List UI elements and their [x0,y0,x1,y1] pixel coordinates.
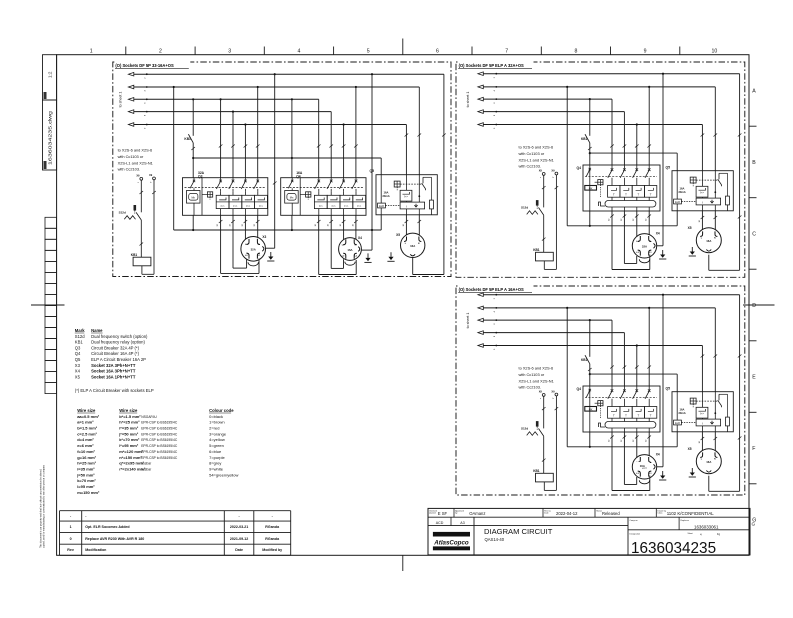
svg-text:I>>: I>> [344,204,348,208]
svg-text:2: 2 [159,48,162,54]
svg-text:QAS14-40: QAS14-40 [485,537,505,542]
svg-text:j=50 mm²: j=50 mm² [76,472,95,477]
svg-text:I>>: I>> [221,204,225,208]
svg-text:Released: Released [602,511,620,516]
svg-text:k*=70 mm²: k*=70 mm² [119,437,140,442]
svg-text:X4: X4 [358,236,362,240]
svg-text:16A: 16A [680,186,685,190]
svg-text:Mn: Mn [191,196,195,200]
svg-text:copied, used for manufacturing: copied, used for manufacturing or commun… [43,464,46,548]
svg-text:busbar: busbar [141,462,152,466]
svg-text:F: F [752,446,755,452]
svg-text:l=95 mm²: l=95 mm² [77,484,95,489]
svg-text:c=2.5 mm²: c=2.5 mm² [77,431,97,436]
svg-text:I>>: I>> [700,191,704,195]
svg-text:aa=0.5 mm²: aa=0.5 mm² [77,414,100,419]
svg-text:32A: 32A [642,245,647,249]
svg-text:(O) Sockets DF 5P ELP A 32A+OS: (O) Sockets DF 5P ELP A 32A+OS [459,63,524,68]
svg-text:9=white: 9=white [209,466,224,471]
svg-text:Q3: Q3 [198,174,203,178]
svg-text:X9: X9 [136,174,140,178]
svg-text:32A: 32A [251,248,256,252]
svg-text:8: 8 [574,48,577,54]
svg-text:1636034235.dwg: 1636034235.dwg [48,110,53,165]
svg-text:h*=25 mm²: h*=25 mm² [119,420,140,425]
svg-text:D: D [752,303,756,309]
svg-text:EPR-CSP to BS6195/4C: EPR-CSP to BS6195/4C [141,438,178,442]
svg-text:a=1 mm²: a=1 mm² [77,420,94,425]
svg-text:S12d: S12d [521,206,528,210]
svg-text:EPR-CSP to BS6195/4C: EPR-CSP to BS6195/4C [141,421,178,425]
svg-text:Circuit Breaker 32A 4P (*): Circuit Breaker 32A 4P (*) [91,345,139,350]
svg-text:2=red: 2=red [209,426,219,431]
svg-text:j*=50 mm²: j*=50 mm² [118,431,139,436]
svg-text:Dual frequency relay (option): Dual frequency relay (option) [91,340,145,345]
svg-text:l*=95 mm²: l*=95 mm² [119,443,139,448]
svg-text:G: G [752,522,756,527]
svg-text:Sheet: Sheet [688,532,694,535]
svg-text:16A: 16A [640,464,645,468]
svg-text:I>>: I>> [233,204,237,208]
svg-text:X9: X9 [539,169,543,173]
svg-text:to sheet 1: to sheet 1 [119,92,123,108]
svg-text:3: 3 [228,48,231,54]
svg-text:A: A [752,89,756,95]
svg-text:Q4: Q4 [296,174,301,178]
svg-text:Socket 16A 3Ph+N+TT: Socket 16A 3Ph+N+TT [91,369,136,374]
svg-text:X9: X9 [551,168,555,172]
svg-text:A3: A3 [460,521,464,525]
svg-text:e=6 mm²: e=6 mm² [77,443,94,448]
svg-text:2022-03-21: 2022-03-21 [230,525,248,529]
svg-text:T: T [638,193,640,197]
svg-text:busbar: busbar [141,467,152,471]
svg-text:RGanda: RGanda [265,537,280,541]
svg-text:T: T [625,193,627,197]
svg-text:16A: 16A [706,239,711,243]
svg-text:by: by [455,513,457,515]
svg-text:E: E [752,375,756,381]
svg-text:k=70 mm²: k=70 mm² [77,478,96,483]
svg-text:Name: Name [91,328,103,333]
svg-text:to sheet 1: to sheet 1 [466,92,470,108]
svg-text:Colour code: Colour code [209,408,234,413]
svg-text:6: 6 [436,48,439,54]
svg-text:b*=1.5 mm²: b*=1.5 mm² [119,414,141,419]
svg-text:with Cc2103.: with Cc2103. [519,164,542,169]
svg-text:X3: X3 [262,235,266,239]
svg-text:S12d: S12d [119,211,126,215]
svg-text:Mn: Mn [290,196,294,200]
svg-text:d=4 mm²: d=4 mm² [77,437,94,442]
svg-text:X2S-L1 and X2S-N1: X2S-L1 and X2S-N1 [519,157,554,162]
svg-text:KB1: KB1 [75,340,84,345]
svg-text:(O) Sockets DF 5P ELP A 16A+OS: (O) Sockets DF 5P ELP A 16A+OS [459,287,524,292]
svg-text:1: 1 [70,525,72,529]
svg-text:KB1: KB1 [581,137,588,141]
svg-text:ELP A Circuit Breaker 16A 2P: ELP A Circuit Breaker 16A 2P [91,357,146,362]
svg-text:4=yellow: 4=yellow [209,437,225,442]
svg-text:Q5: Q5 [665,166,670,170]
svg-text:i*=35 mm²: i*=35 mm² [119,426,139,431]
svg-text:30mA: 30mA [382,194,389,198]
svg-text:16A: 16A [410,244,415,248]
svg-text:h=25 mm²: h=25 mm² [77,461,96,466]
svg-text:T: T [650,193,652,197]
svg-text:0=black: 0=black [209,414,223,419]
svg-text:S12d: S12d [75,334,85,339]
svg-text:Replaces: Replaces [681,520,689,522]
svg-text:ELR: ELR [675,201,680,204]
svg-text:Socket 16A 1Ph+N+TT: Socket 16A 1Ph+N+TT [91,374,136,379]
svg-text:Replace AVR R230 With AVR R 18: Replace AVR R230 With AVR R 180 [85,537,144,541]
svg-text:Socket 32A 3Ph+N+TT: Socket 32A 3Ph+N+TT [91,363,136,368]
svg-text:7=purple: 7=purple [209,455,225,460]
svg-text:m=150 mm²: m=150 mm² [77,490,100,495]
svg-text:X5: X5 [688,226,692,230]
svg-text:(O) Sockets DF 5P 33-16A+OS: (O) Sockets DF 5P 33-16A+OS [115,63,174,68]
svg-text:EPR-CSP to BS6195/4C: EPR-CSP to BS6195/4C [141,432,178,436]
svg-text:ELR: ELR [379,205,384,208]
svg-text:ACD: ACD [436,521,444,525]
svg-text:Mark: Mark [75,328,85,333]
svg-text:MX: MX [589,187,593,190]
svg-text:Q3: Q3 [75,345,81,350]
svg-text:I>>: I>> [259,204,263,208]
svg-text:8=grey: 8=grey [209,461,221,466]
svg-text:NSGAFöU: NSGAFöU [141,415,157,419]
svg-text:EPR-CSP to BS6195/4C: EPR-CSP to BS6195/4C [141,444,178,448]
svg-text:I>>: I>> [404,195,408,199]
svg-text:Wire size: Wire size [77,408,96,413]
svg-text:B: B [752,160,756,166]
svg-text:f=10 mm²: f=10 mm² [77,449,95,454]
svg-text:Class: Class [657,513,662,515]
svg-text:Q5: Q5 [369,169,374,173]
svg-text:16A: 16A [347,248,352,252]
svg-text:(*) ELP A Circuit Breaker with: (*) ELP A Circuit Breaker with sockets E… [75,388,154,393]
svg-text:5: 5 [367,48,370,54]
svg-text:EPR-CSP to BS6195/4C: EPR-CSP to BS6195/4C [141,450,178,454]
svg-text:RGanda: RGanda [265,525,280,529]
svg-text:to X2S-6 and X2S-6: to X2S-6 and X2S-6 [118,148,153,153]
svg-text:Q4: Q4 [576,166,581,170]
svg-text:54=green/yellow: 54=green/yellow [209,472,238,477]
svg-text:2021-09-12: 2021-09-12 [230,537,248,541]
svg-text:1636033061: 1636033061 [694,525,719,530]
svg-text:Quoted: Quoted [429,512,436,515]
svg-text:2022-04-12: 2022-04-12 [556,511,578,516]
svg-text:C: C [752,232,756,238]
svg-text:m*=120 mm²: m*=120 mm² [119,449,143,454]
svg-text:X3: X3 [75,363,81,368]
svg-text:Q4: Q4 [75,351,81,356]
svg-text:i=35 mm²: i=35 mm² [77,466,95,471]
svg-text:1:2: 1:2 [47,71,52,78]
svg-text:6=blue: 6=blue [209,449,222,454]
svg-text:10: 10 [712,48,718,54]
svg-text:Modified by: Modified by [262,548,282,552]
svg-text:X5: X5 [75,374,81,379]
svg-text:X5: X5 [396,233,400,237]
svg-text:b=1.5 mm²: b=1.5 mm² [77,426,98,431]
svg-text:KB1: KB1 [131,253,138,257]
svg-text:Dual frequency switch (option): Dual frequency switch (option) [91,334,148,339]
svg-text:DIAGRAM CIRCUIT: DIAGRAM CIRCUIT [484,527,553,536]
svg-text:Wire size: Wire size [119,408,138,413]
svg-text:3=orange: 3=orange [209,431,227,436]
svg-text:1102 K/CONFIDENTIAL: 1102 K/CONFIDENTIAL [667,511,715,516]
svg-text:Rev: Rev [67,548,74,552]
svg-text:KB1: KB1 [533,248,540,252]
svg-text:Date: Date [235,548,243,552]
svg-text:Opt. ELR Socomec Added: Opt. ELR Socomec Added [85,525,129,529]
svg-text:OAmanz: OAmanz [469,511,485,516]
svg-text:g=16 mm²: g=16 mm² [77,455,96,460]
svg-text:X2S-L1 and X2S-N1: X2S-L1 and X2S-N1 [118,160,153,165]
svg-text:I>>: I>> [332,204,336,208]
svg-text:1: 1 [90,48,93,54]
svg-text:E SF: E SF [438,511,448,516]
svg-text:30mA: 30mA [678,190,685,194]
svg-text:I>>: I>> [357,204,361,208]
svg-text:Modification: Modification [85,548,106,552]
svg-text:Designation: Designation [630,533,641,536]
svg-text:This document is our property: This document is our property and shall … [40,468,43,548]
svg-text:0: 0 [70,537,72,541]
svg-text:Circuit Breaker 16A 4P (*): Circuit Breaker 16A 4P (*) [91,351,139,356]
svg-text:1=brown: 1=brown [209,420,224,425]
svg-text:AtlasCopco: AtlasCopco [433,540,469,547]
svg-text:7: 7 [505,48,508,54]
svg-text:Comp an: Comp an [630,520,638,522]
svg-text:EPR-CSP to BS6195/4C: EPR-CSP to BS6195/4C [141,427,178,431]
svg-text:5=green: 5=green [209,443,224,448]
svg-text:4: 4 [297,48,300,54]
svg-text:EPR-CSP to BS6195/4C: EPR-CSP to BS6195/4C [141,456,178,460]
svg-text:KB1: KB1 [184,137,191,141]
svg-text:n*=150 mm²: n*=150 mm² [119,455,142,460]
svg-text:I>>: I>> [319,204,323,208]
svg-text:with Cc1103 or: with Cc1103 or [519,151,545,156]
svg-text:T: T [613,193,615,197]
svg-text:with Cc2103.: with Cc2103. [118,167,141,172]
svg-text:16A: 16A [384,190,389,194]
svg-text:9: 9 [644,48,647,54]
svg-text:with Cc1103 or: with Cc1103 or [118,154,144,159]
svg-text:X4: X4 [75,369,81,374]
svg-text:to X2S-6 and X2S-6: to X2S-6 and X2S-6 [519,145,554,150]
svg-text:1636034235: 1636034235 [631,540,716,557]
svg-text:X4: X4 [656,232,660,236]
svg-text:Q5: Q5 [75,357,81,362]
svg-text:I>>: I>> [246,204,250,208]
svg-text:X9: X9 [149,173,153,177]
